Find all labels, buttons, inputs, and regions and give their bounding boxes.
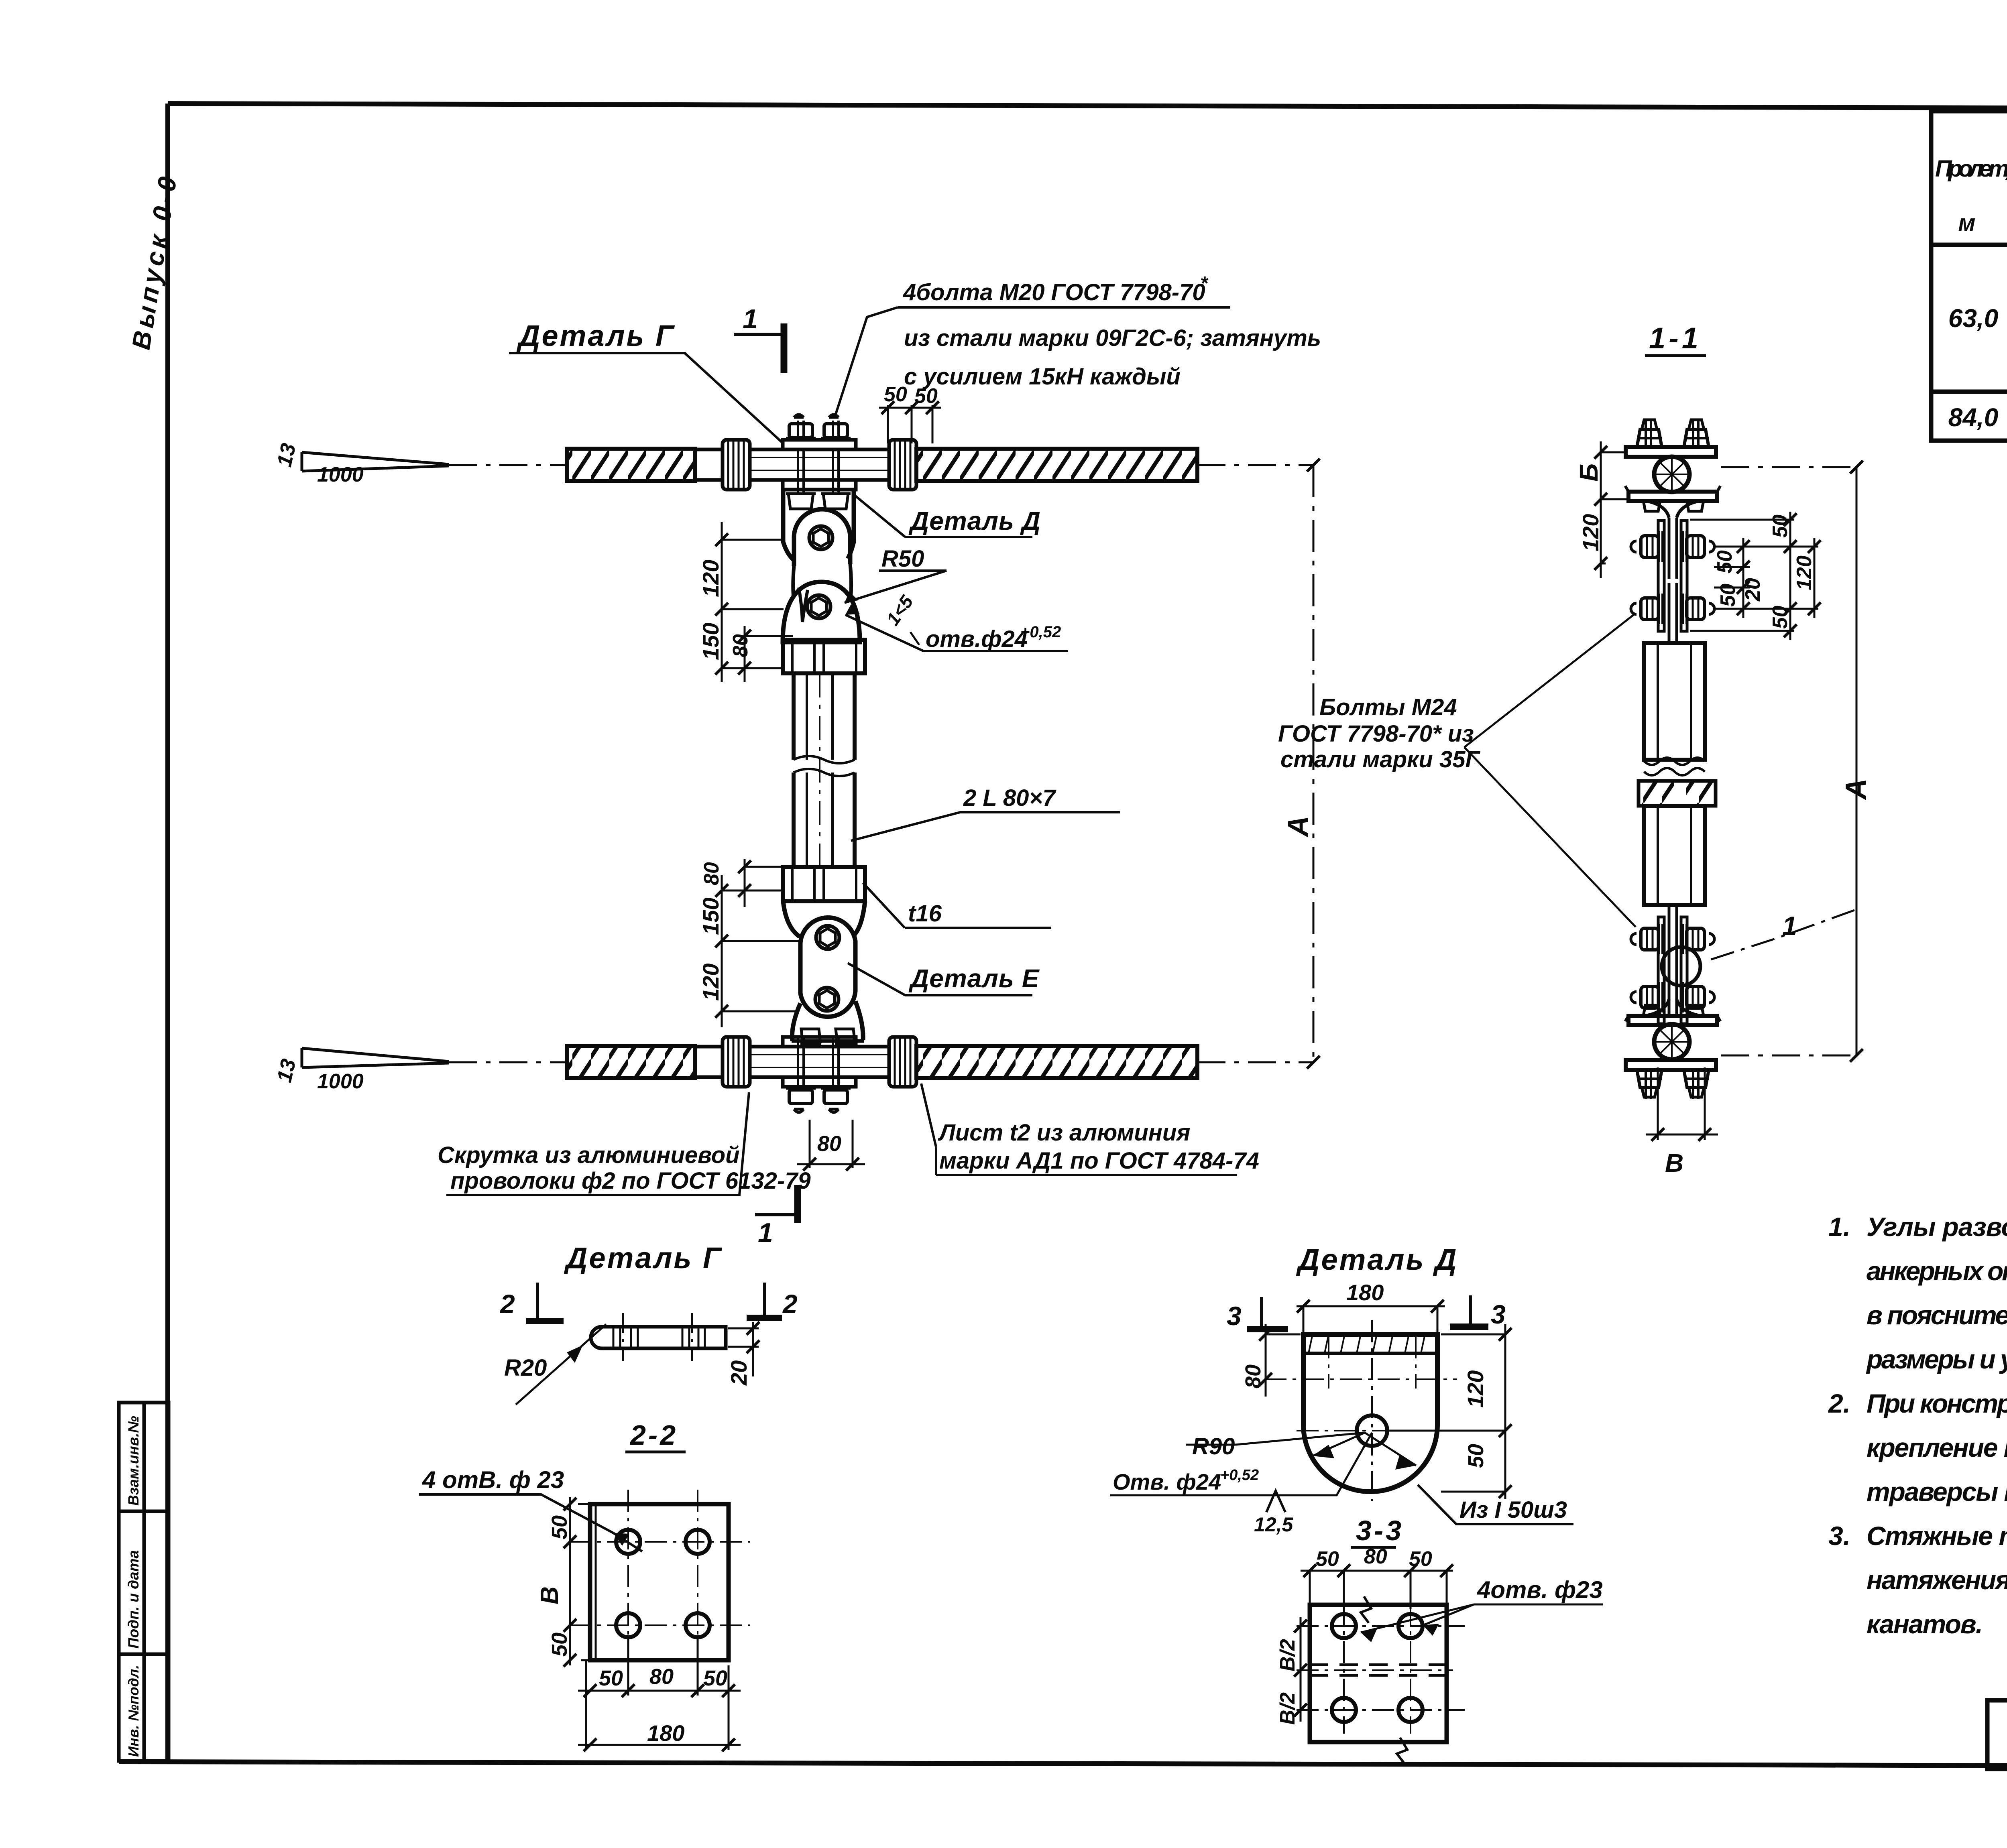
svg-text:180: 180	[1346, 1280, 1384, 1305]
svg-text:отв.ф24: отв.ф24	[926, 626, 1028, 652]
svg-text:+0,52: +0,52	[1020, 623, 1061, 641]
svg-text:Лист t2 из алюминия: Лист t2 из алюминия	[938, 1120, 1190, 1146]
svg-text:1<5: 1<5	[882, 591, 918, 629]
svg-text:80: 80	[649, 1665, 674, 1689]
svg-text:А: А	[1840, 779, 1872, 800]
svg-text:4болта М20 ГОСТ 7798-70: 4болта М20 ГОСТ 7798-70	[903, 279, 1205, 305]
svg-text:2: 2	[782, 1289, 798, 1319]
svg-text:180: 180	[647, 1720, 684, 1746]
svg-text:2: 2	[499, 1289, 515, 1319]
svg-text:3: 3	[1227, 1301, 1242, 1331]
svg-text:Болты М24: Болты М24	[1319, 694, 1457, 720]
svg-text:Скрутка из алюминиевой: Скрутка из алюминиевой	[438, 1142, 740, 1168]
svg-text:t16: t16	[908, 901, 942, 927]
svg-text:В/2: В/2	[1276, 1639, 1299, 1671]
svg-text:А: А	[1282, 816, 1314, 838]
svg-text:4 отВ. ф 23: 4 отВ. ф 23	[422, 1466, 564, 1493]
svg-text:3-3: 3-3	[1356, 1515, 1404, 1546]
svg-text:50: 50	[1716, 583, 1740, 607]
svg-text:R90: R90	[1192, 1433, 1235, 1460]
svg-text:120: 120	[698, 964, 723, 1001]
svg-text:Деталь Е: Деталь Е	[908, 964, 1040, 993]
svg-text:1: 1	[758, 1218, 773, 1248]
svg-text:20: 20	[726, 1360, 751, 1386]
svg-text:траверсы не нужны.: траверсы не нужны.	[1867, 1477, 2007, 1506]
svg-text:В/2: В/2	[1276, 1692, 1299, 1725]
svg-text:120: 120	[1578, 514, 1603, 551]
svg-text:80: 80	[817, 1132, 841, 1156]
svg-text:84,0: 84,0	[1948, 403, 1999, 432]
svg-text:R20: R20	[504, 1355, 547, 1381]
svg-text:Деталь Г: Деталь Г	[564, 1241, 723, 1275]
svg-text:Из Ι 50ш3: Из Ι 50ш3	[1459, 1497, 1567, 1523]
svg-text:80: 80	[729, 634, 752, 657]
svg-text:стали марки 35Г: стали марки 35Г	[1280, 746, 1480, 773]
svg-text:Выпуск 0-0: Выпуск 0-0	[126, 171, 183, 352]
svg-text:Б: Б	[1574, 464, 1603, 482]
svg-text:50: 50	[1769, 514, 1792, 538]
svg-text:150: 150	[698, 623, 723, 660]
svg-text:м: м	[1958, 210, 1976, 236]
svg-text:анкерных опор и условий их зал: анкерных опор и условий их заложения, ог…	[1867, 1256, 2007, 1286]
svg-text:Углы разводки канатов даны: Углы разводки канатов даны для конструкц…	[1867, 1212, 2007, 1242]
svg-text:80: 80	[1364, 1545, 1387, 1568]
svg-text:Пролет,: Пролет,	[1935, 156, 2007, 182]
svg-text:R50: R50	[881, 546, 924, 572]
svg-text:120: 120	[1463, 1370, 1488, 1408]
svg-text:1000: 1000	[317, 1070, 364, 1093]
svg-text:ГОСТ 7798-70* из: ГОСТ 7798-70* из	[1278, 721, 1474, 747]
svg-text:Инв. №подл.: Инв. №подл.	[125, 1665, 142, 1757]
svg-text:63,0: 63,0	[1948, 304, 1999, 333]
svg-text:50: 50	[1464, 1444, 1488, 1468]
svg-text:150: 150	[698, 898, 723, 935]
svg-text:Деталь Д: Деталь Д	[908, 506, 1041, 535]
svg-text:1: 1	[743, 304, 758, 334]
svg-text:3.: 3.	[1828, 1521, 1850, 1551]
svg-text:1.: 1.	[1828, 1212, 1850, 1242]
svg-text:80: 80	[1241, 1364, 1265, 1389]
svg-text:*: *	[1200, 273, 1209, 294]
svg-text:3: 3	[1491, 1299, 1506, 1329]
svg-text:марки АД1 по ГОСТ 4784-74: марки АД1 по ГОСТ 4784-74	[939, 1148, 1259, 1174]
svg-text:1-1: 1-1	[1649, 321, 1702, 355]
svg-text:50: 50	[1713, 550, 1736, 573]
svg-text:Стяжные траверсы устанавлива: Стяжные траверсы устанавливаются после	[1867, 1521, 2007, 1551]
svg-text:13: 13	[273, 441, 301, 469]
svg-text:При конструкции анкерных оп: При конструкции анкерных опор, позволяющ…	[1867, 1389, 2007, 1418]
svg-text:13: 13	[273, 1057, 301, 1084]
svg-text:50: 50	[548, 1515, 572, 1539]
svg-text:1000: 1000	[317, 463, 364, 486]
svg-text:50: 50	[1769, 606, 1792, 629]
svg-text:2.: 2.	[1828, 1389, 1850, 1418]
svg-text:50: 50	[703, 1666, 727, 1690]
svg-text:80: 80	[700, 862, 723, 885]
svg-text:50: 50	[548, 1633, 572, 1657]
svg-text:50: 50	[1316, 1547, 1339, 1571]
svg-text:4отв. ф23: 4отв. ф23	[1477, 1576, 1603, 1603]
svg-text:120: 120	[1793, 555, 1816, 590]
svg-text:120: 120	[698, 560, 723, 597]
svg-text:12,5: 12,5	[1254, 1513, 1294, 1536]
svg-text:Отв. ф24: Отв. ф24	[1113, 1469, 1221, 1494]
svg-text:В: В	[536, 1586, 564, 1604]
svg-text:2-2: 2-2	[629, 1419, 678, 1451]
svg-text:+0,52: +0,52	[1220, 1467, 1259, 1484]
svg-text:из стали марки 09Г2С-6; затяну: из стали марки 09Г2С-6; затянуть	[904, 325, 1321, 351]
svg-text:2 L 80×7: 2 L 80×7	[963, 785, 1056, 811]
svg-text:в пояснительной записке. При: в пояснительной записке. При привязке пр…	[1867, 1300, 2007, 1330]
svg-text:проволоки ф2 по ГОСТ 6132-7: проволоки ф2 по ГОСТ 6132-79	[450, 1168, 811, 1194]
svg-text:натяжения и предварительной: натяжения и предварительной регулировки	[1867, 1565, 2007, 1595]
svg-text:Подп. и дата: Подп. и дата	[125, 1550, 142, 1649]
svg-text:с усилием 15кН каждый: с усилием 15кН каждый	[904, 364, 1181, 390]
svg-text:Деталь Д: Деталь Д	[1296, 1243, 1458, 1276]
svg-text:20: 20	[1741, 578, 1765, 602]
svg-text:крепление к ним канатов бе: крепление к ним канатов без разводки их,	[1867, 1433, 2007, 1462]
svg-text:канатов.: канатов.	[1867, 1609, 1983, 1639]
svg-text:размеры и углы должны быть: размеры и углы должны быть уточнены.	[1866, 1344, 2007, 1374]
svg-text:В: В	[1665, 1149, 1683, 1177]
svg-text:Деталь Г: Деталь Г	[516, 319, 675, 352]
svg-text:Взам.инв.№: Взам.инв.№	[125, 1416, 142, 1506]
svg-text:50: 50	[599, 1666, 623, 1690]
